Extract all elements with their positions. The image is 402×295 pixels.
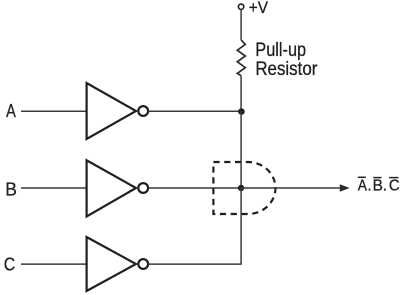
- wire U2 output: [148, 187, 241, 189]
- svg-text:.: .: [367, 177, 371, 194]
- overbar A: [358, 176, 366, 178]
- inverter U3 bubble: [138, 259, 148, 269]
- +V terminal: [238, 4, 243, 9]
- svg-text:+V: +V: [249, 0, 269, 17]
- svg-text:C: C: [4, 255, 15, 275]
- svg-text:B: B: [373, 177, 383, 194]
- overbar B: [373, 177, 381, 179]
- resistor R pull-up: [237, 40, 245, 76]
- inverter U1 bubble: [138, 106, 148, 116]
- output wire: [241, 187, 341, 189]
- svg-text:A: A: [6, 100, 16, 121]
- overbar C: [389, 177, 398, 179]
- wire B input: [21, 187, 87, 189]
- virtual AND gate (dashed): [213, 162, 275, 214]
- svg-text:A: A: [358, 177, 367, 194]
- svg-text:B: B: [5, 179, 17, 199]
- wire resistor to node 1: [240, 76, 242, 111]
- junction dot node 1: [238, 108, 245, 115]
- output arrowhead: [340, 184, 350, 191]
- wire A input: [21, 110, 87, 112]
- wire U3 output: [148, 263, 241, 265]
- inverter U2 triangle: [87, 160, 136, 216]
- inverter U2 bubble: [138, 183, 148, 193]
- svg-text:.: .: [383, 177, 387, 194]
- junction dot node 2: [238, 185, 244, 191]
- svg-text:Resistor: Resistor: [255, 58, 317, 79]
- wire C input: [21, 263, 87, 265]
- inverter U3 triangle: [87, 237, 136, 291]
- svg-text:C: C: [389, 177, 400, 195]
- wire node1 to node2: [240, 111, 242, 188]
- inverter U1 triangle: [87, 83, 136, 139]
- wire node2 down to C output corner: [240, 188, 242, 265]
- wire terminal to resistor: [240, 10, 242, 40]
- wire U1 output: [148, 110, 242, 112]
